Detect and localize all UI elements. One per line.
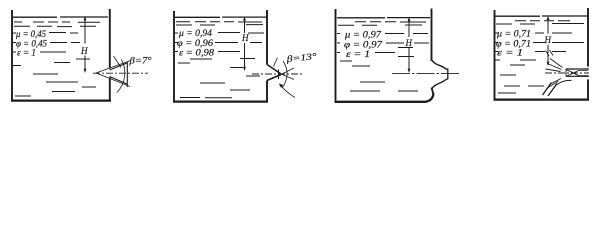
tank3 bottom with rounded right corner [335, 94, 434, 102]
tank1 cone top line [110, 63, 128, 70]
svg-text:φ = 0,96: φ = 0,96 [177, 38, 214, 48]
svg-text:μ = 0,97: μ = 0,97 [344, 30, 382, 40]
tank2 leader line [274, 58, 278, 67]
tank3 nozzle top curve [432, 60, 448, 70]
svg-text:H: H [241, 33, 249, 43]
tank3 water surface [337, 17, 430, 19]
svg-text:H: H [544, 35, 552, 45]
tank4 left wall [494, 10, 496, 100]
tank1 bottom [11, 99, 111, 101]
tank4 bottom [494, 98, 590, 100]
tank1 nozzle axis (dash-dot) [93, 72, 148, 74]
tank1 angle apex line lower [96, 73, 130, 87]
tank1 left wall [11, 10, 13, 101]
tank2 right wall lower [266, 81, 268, 102]
tank2 H arrow down [243, 67, 246, 71]
tank2 angle arc [283, 61, 288, 88]
svg-text:μ = 0,71: μ = 0,71 [496, 29, 531, 39]
tank2 outlet line [278, 70, 280, 80]
tank1 outlet line [126, 62, 128, 87]
tank3 H arrow down [408, 69, 411, 73]
tank4 water surface [495, 15, 587, 17]
tank1 leader line [114, 56, 122, 68]
tank2 curved arrow [281, 86, 296, 98]
tank2 right wall upper [266, 10, 268, 65]
tank4 H dimension line [547, 18, 549, 64]
tank3 nozzle bottom curve [432, 79, 448, 89]
svg-text:H: H [405, 38, 413, 48]
tank2 cone bottom line [267, 75, 281, 81]
tank2 curved arrow head [279, 84, 284, 88]
tank4 tube top wall [566, 68, 589, 70]
tank4 water dashes [495, 21, 584, 93]
tank3 water dashes [337, 22, 429, 91]
tank4 tube entrance [565, 69, 567, 77]
tank1 H dimension line [84, 19, 86, 72]
tank2 left wall [173, 11, 175, 102]
tank4 tube bottom wall [566, 75, 589, 77]
tank4 jet contraction (vena contracta) [567, 70, 579, 76]
tank1 angle apex line upper [96, 61, 131, 74]
tank2 bottom [173, 100, 268, 102]
svg-text:β=7°: β=7° [128, 56, 152, 66]
tank4 splash arc [555, 80, 572, 86]
tank4 jet lines [579, 71, 589, 76]
tank3 H dimension line [408, 19, 410, 71]
tank1 right wall upper [109, 9, 111, 69]
tank1 H arrow down [84, 69, 87, 73]
tank2 water surface [175, 16, 266, 18]
tank2 nozzle axis (dash-dot) [252, 73, 303, 75]
tank2 H arrow up [243, 16, 246, 20]
tank2 cone top line [267, 65, 281, 75]
tank4 H arrow down [547, 62, 550, 66]
tank2 water dashes [175, 22, 264, 98]
svg-text:ε = 0,98: ε = 0,98 [179, 48, 215, 58]
svg-text:ε = 1: ε = 1 [346, 49, 370, 59]
svg-text:H: H [80, 46, 88, 56]
tank4 right wall upper [587, 8, 589, 67]
tank1 water surface [13, 16, 108, 18]
tank4 flow lines upper [546, 50, 563, 72]
tank1 cone bottom line [110, 77, 128, 85]
svg-text:ε = 1: ε = 1 [17, 48, 36, 58]
tank3 right wall lower [432, 88, 434, 95]
tank4 tube axis (dash-dot) [545, 72, 589, 74]
tank4 right wall lower [587, 80, 589, 100]
svg-text:μ = 0,45: μ = 0,45 [15, 29, 46, 39]
svg-text:φ = 0,97: φ = 0,97 [344, 40, 383, 50]
tank2 H dimension line [244, 19, 246, 70]
tank3 outlet line [447, 69, 449, 80]
tank2 angle extension lines [281, 68, 294, 80]
tank3 nozzle axis (dash-dot) [392, 73, 461, 75]
tank4 H arrow up [547, 16, 550, 20]
tank3 left wall [335, 9, 337, 102]
tank1 water dashes [13, 22, 100, 96]
tank3 right wall upper [431, 9, 433, 62]
tank4 splash slashes [543, 83, 558, 97]
tank1 H arrow up [84, 16, 87, 20]
tank4 flow lines lower [547, 79, 562, 89]
svg-text:ε = 1: ε = 1 [497, 48, 523, 58]
svg-text:μ = 0,94: μ = 0,94 [178, 28, 213, 38]
tank1 angle arc [117, 60, 125, 93]
tank3 H arrow up [408, 17, 411, 21]
tank1 right wall lower [109, 78, 111, 101]
